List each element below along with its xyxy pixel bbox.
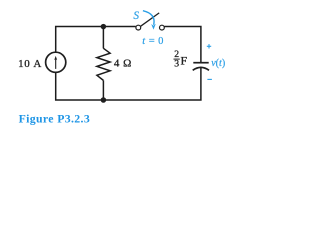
wire middle branch lower stub [102, 80, 104, 100]
minus sign [207, 78, 212, 80]
capacitor C top plate [193, 62, 208, 64]
switch S right contact [160, 25, 165, 30]
current source I1 circle [46, 52, 66, 72]
switch S left contact [136, 25, 141, 30]
svg-text:Figure P3.2.3: Figure P3.2.3 [19, 111, 91, 125]
svg-text:t = 0: t = 0 [142, 36, 164, 47]
node junction dot bottom [101, 97, 107, 103]
wire top-right segment and drop to capacitor [164, 27, 201, 63]
svg-text:4 Ω: 4 Ω [114, 58, 132, 70]
svg-text:S: S [133, 10, 139, 22]
switch blade [141, 13, 160, 26]
wire top-left segment and left drop to source [56, 27, 136, 53]
svg-text:3: 3 [174, 59, 179, 70]
fraction bar [174, 58, 180, 60]
resistor R 4ohm zigzag [97, 48, 110, 80]
node junction dot top [101, 24, 107, 30]
wire middle branch upper stub [102, 27, 104, 49]
switch closing arc arrow (blue) [143, 11, 156, 30]
wire below source, bottom wire, rise to capacitor [56, 68, 201, 100]
svg-text:F: F [181, 54, 188, 68]
capacitor C bottom curved plate [193, 67, 209, 70]
plus sign [207, 44, 211, 48]
current source arrow [54, 56, 57, 69]
svg-text:10 A: 10 A [18, 58, 42, 70]
svg-text:v(t): v(t) [211, 58, 225, 69]
